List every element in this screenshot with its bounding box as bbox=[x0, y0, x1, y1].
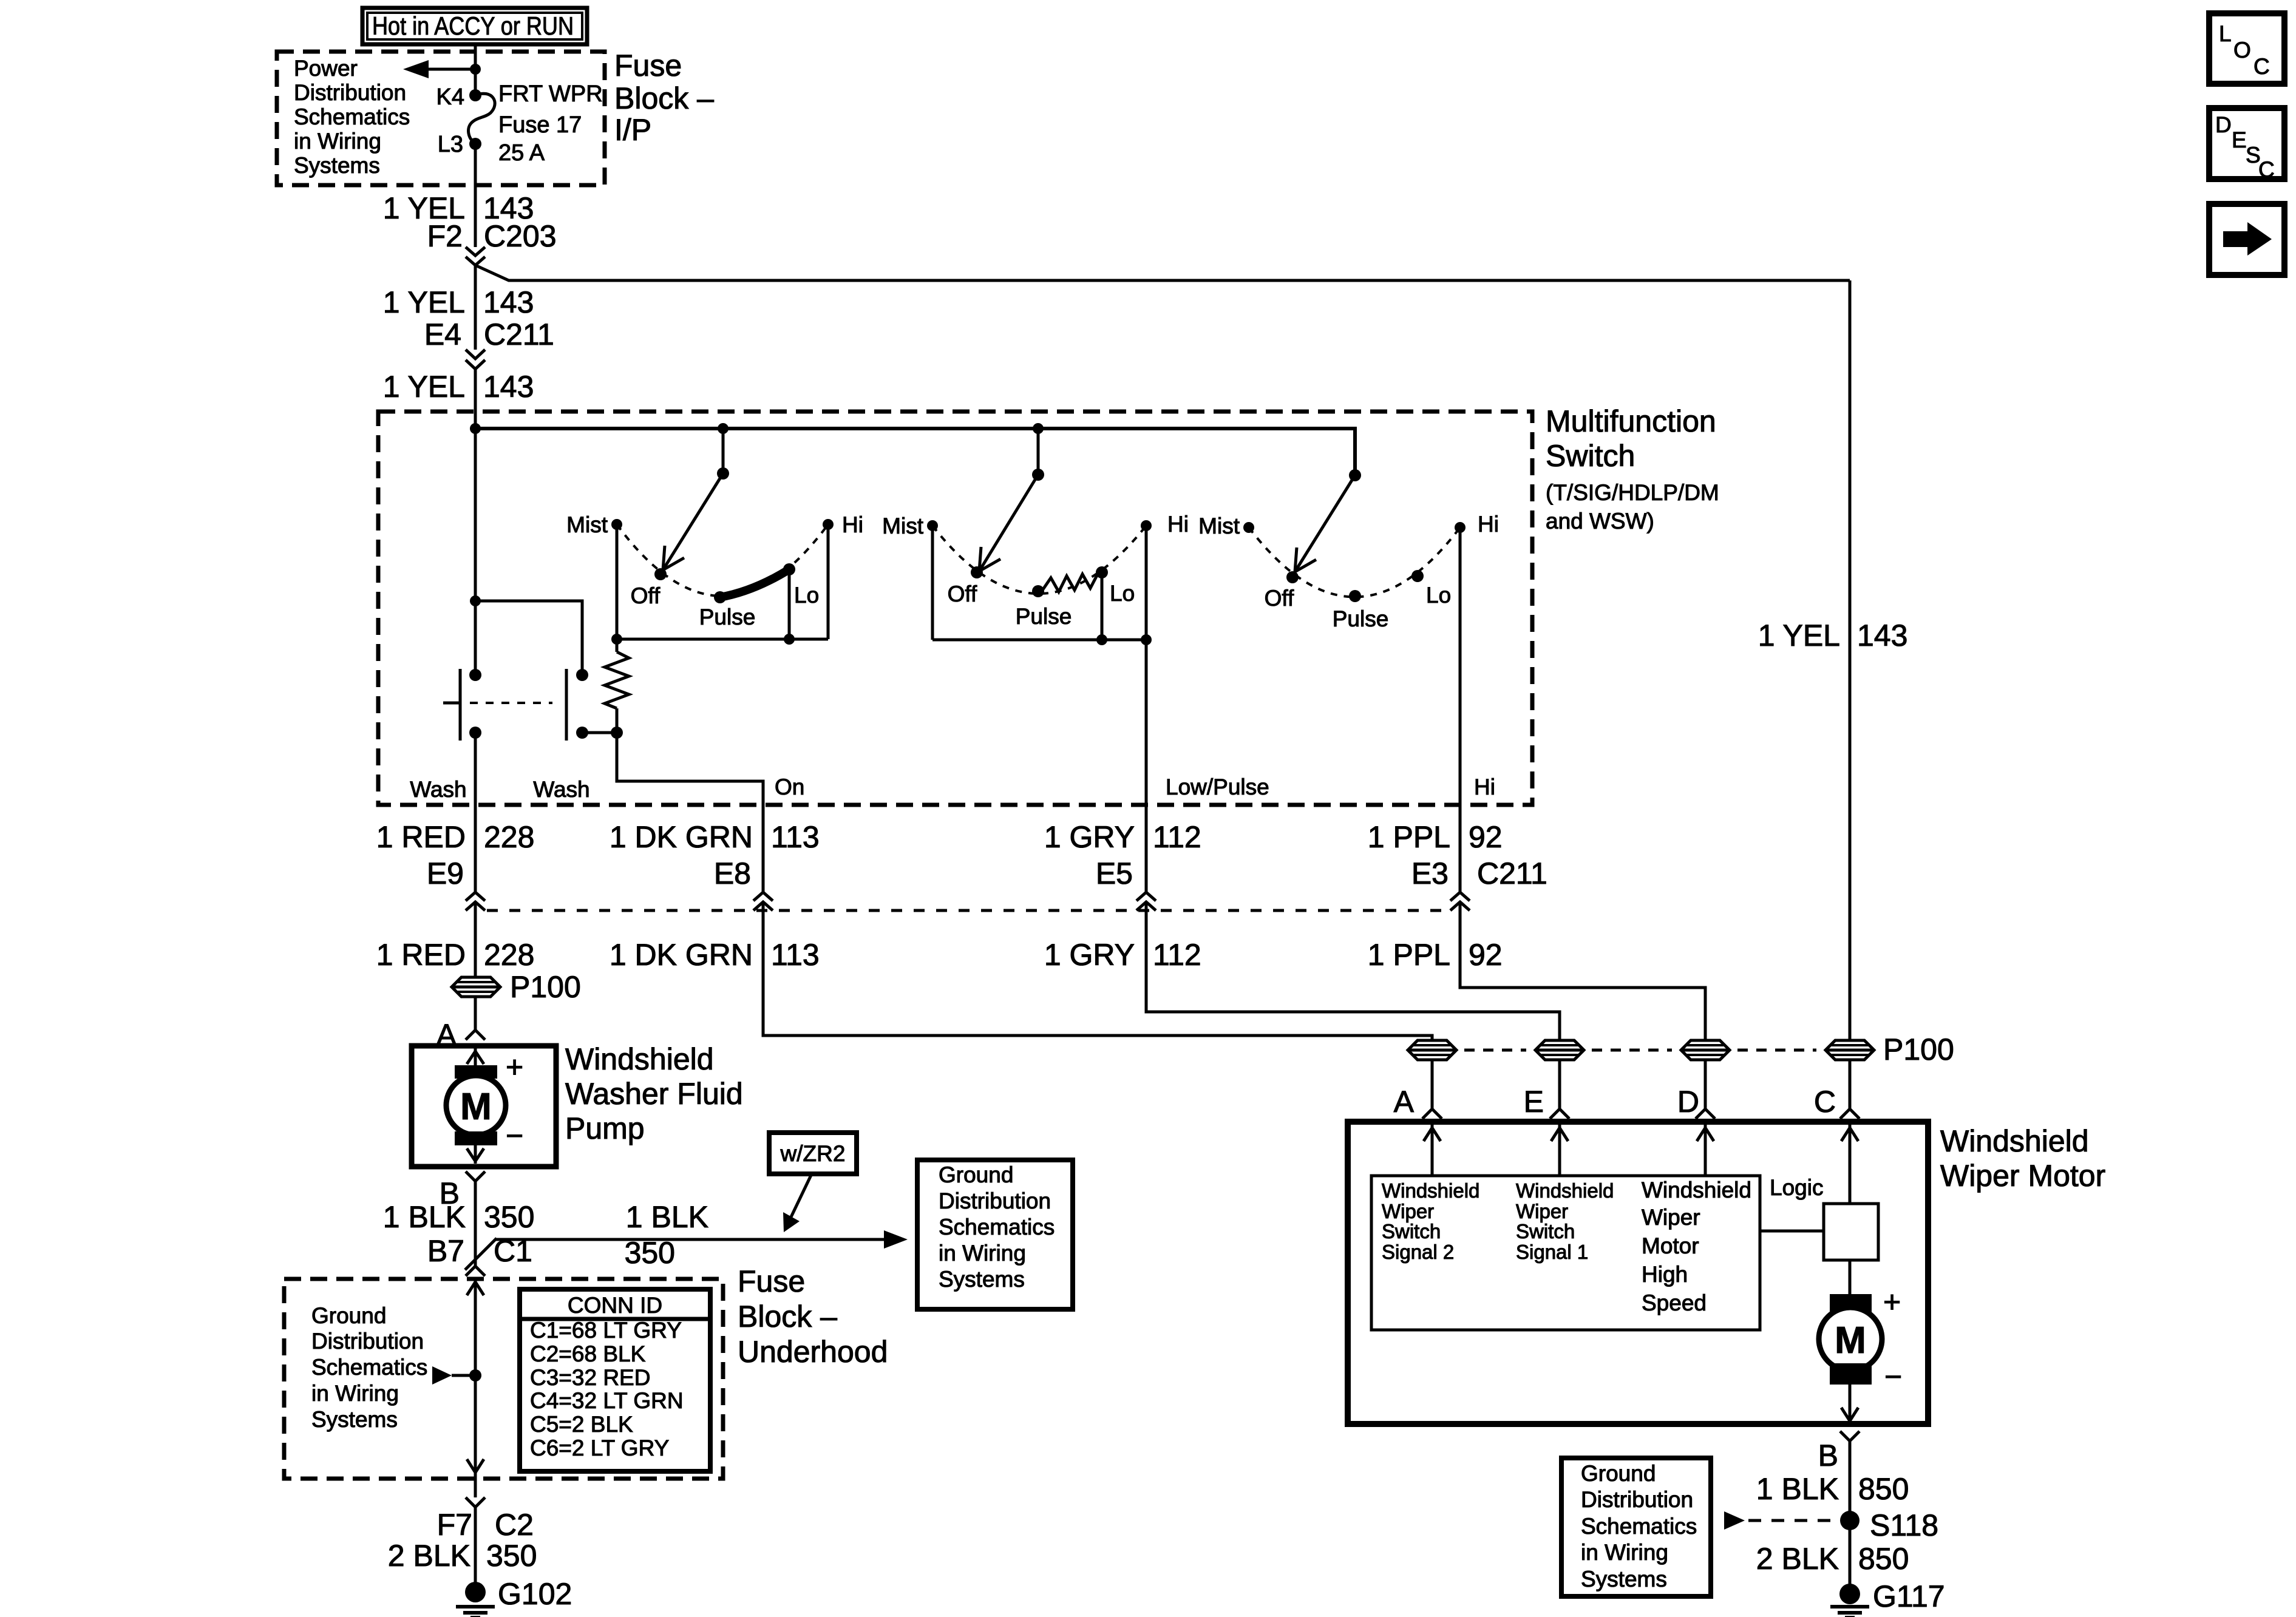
wire label 1 RED 228 (below C211) bbox=[376, 938, 535, 972]
note: Windshield Wiper Motor High Speed bbox=[1642, 1178, 1751, 1315]
svg-text:M: M bbox=[460, 1086, 492, 1128]
svg-text:1 YEL: 1 YEL bbox=[1758, 619, 1840, 653]
svg-text:Off: Off bbox=[631, 583, 661, 608]
svg-text:in Wiring: in Wiring bbox=[294, 129, 381, 154]
nav box DESC bbox=[2209, 108, 2284, 182]
wire C211 into multifunction switch bbox=[474, 369, 477, 675]
node: branch to power distribution (left arrow) bbox=[403, 60, 481, 78]
wire fuse to C203 bbox=[474, 144, 477, 247]
wire label 1 RED 228 bbox=[376, 820, 535, 854]
wire PPL to wiper motor D bbox=[1460, 902, 1705, 1039]
svg-text:K4: K4 bbox=[436, 84, 464, 110]
svg-text:G102: G102 bbox=[498, 1577, 572, 1611]
svg-text:Windshield: Windshield bbox=[1940, 1124, 2089, 1158]
svg-text:2 BLK: 2 BLK bbox=[1756, 1542, 1839, 1576]
fuse value label bbox=[498, 81, 603, 166]
wire D grommet to motor box bbox=[1704, 1060, 1707, 1109]
grommet P100 (wiper A) bbox=[1408, 1040, 1456, 1060]
svg-text:Systems: Systems bbox=[939, 1267, 1025, 1292]
pump motor M bbox=[446, 1048, 506, 1164]
svg-text:Wash: Wash bbox=[410, 777, 466, 802]
svg-text:D: D bbox=[2215, 112, 2232, 137]
svg-text:Schematics: Schematics bbox=[939, 1215, 1055, 1239]
svg-text:C4=32 LT GRN: C4=32 LT GRN bbox=[530, 1388, 684, 1413]
wire to G102 bbox=[474, 1507, 477, 1583]
wire C grommet to motor box bbox=[1849, 1060, 1852, 1109]
svg-text:Washer Fluid: Washer Fluid bbox=[565, 1077, 743, 1111]
svg-text:1 RED: 1 RED bbox=[376, 820, 466, 854]
svg-text:Mist: Mist bbox=[882, 514, 924, 538]
svg-text:Speed: Speed bbox=[1642, 1290, 1707, 1315]
svg-text:E8: E8 bbox=[714, 856, 751, 890]
wire from Hot box down to fuse bbox=[474, 44, 477, 95]
switch 1 closed contact thick arc (Pulse-Lo) bbox=[720, 569, 789, 597]
svg-text:Hi: Hi bbox=[1167, 512, 1189, 537]
arrow from w/ZR2 to wire bbox=[783, 1174, 812, 1232]
svg-text:1 YEL: 1 YEL bbox=[383, 285, 465, 319]
svg-text:143: 143 bbox=[1857, 619, 1907, 653]
svg-text:1 YEL: 1 YEL bbox=[383, 370, 465, 404]
svg-text:A: A bbox=[1394, 1085, 1415, 1119]
svg-text:E5: E5 bbox=[1096, 856, 1133, 890]
pin B7 entry chevron bbox=[466, 1266, 485, 1276]
svg-text:Systems: Systems bbox=[294, 153, 380, 178]
wire label 2 BLK 350 bbox=[388, 1539, 537, 1573]
svg-text:F7: F7 bbox=[437, 1508, 472, 1542]
switch 1 contacts Mist Off Hi bbox=[611, 519, 834, 603]
svg-text:Windshield: Windshield bbox=[1642, 1178, 1751, 1202]
title: Fuse Block - Underhood bbox=[738, 1264, 888, 1369]
svg-text:C: C bbox=[2254, 54, 2270, 79]
svg-text:C211: C211 bbox=[484, 317, 554, 351]
signal box bbox=[1371, 1176, 1760, 1330]
fuse block I/P dashed box bbox=[277, 52, 605, 185]
svg-text:Switch: Switch bbox=[1382, 1220, 1441, 1242]
wire Wash output bbox=[474, 733, 477, 892]
svg-text:E: E bbox=[2232, 127, 2247, 152]
node resistor / wash junction bbox=[582, 727, 623, 739]
svg-text:C2: C2 bbox=[495, 1508, 534, 1542]
svg-text:D: D bbox=[1677, 1085, 1699, 1119]
CONN ID table bbox=[520, 1289, 710, 1471]
svg-text:C6=2 LT GRY: C6=2 LT GRY bbox=[530, 1436, 669, 1460]
svg-text:M: M bbox=[1835, 1320, 1866, 1361]
svg-text:92: 92 bbox=[1469, 938, 1503, 972]
svg-text:2 BLK: 2 BLK bbox=[388, 1539, 470, 1573]
svg-text:C3=32 RED: C3=32 RED bbox=[530, 1365, 650, 1390]
switch 1 position arc bbox=[617, 524, 828, 596]
svg-text:Ground: Ground bbox=[311, 1303, 386, 1328]
svg-text:Distribution: Distribution bbox=[1581, 1487, 1693, 1512]
power label box "Hot in ACCY or RUN" bbox=[362, 8, 587, 44]
wire C entry arrow to logic bbox=[1841, 1125, 1858, 1204]
svg-text:and WSW): and WSW) bbox=[1546, 509, 1654, 534]
svg-text:1 PPL: 1 PPL bbox=[1368, 820, 1450, 854]
svg-text:I/P: I/P bbox=[614, 113, 651, 147]
svg-text:228: 228 bbox=[484, 938, 534, 972]
svg-text:850: 850 bbox=[1858, 1472, 1909, 1506]
connector C203 pin F2 bbox=[427, 219, 557, 265]
svg-text:Lo: Lo bbox=[794, 583, 819, 608]
svg-text:in Wiring: in Wiring bbox=[1581, 1540, 1668, 1565]
svg-text:Systems: Systems bbox=[1581, 1567, 1667, 1592]
svg-text:C: C bbox=[1814, 1085, 1836, 1119]
note: Power Distribution Schematics in Wiring Systems bbox=[294, 56, 410, 178]
pin B connector chevron (pump) bbox=[466, 1171, 485, 1181]
connector C211 pin E3 bbox=[1411, 856, 1547, 910]
pin C chevron bbox=[1840, 1109, 1860, 1119]
svg-text:P100: P100 bbox=[510, 970, 581, 1004]
svg-text:1 DK GRN: 1 DK GRN bbox=[610, 938, 753, 972]
svg-text:Distribution: Distribution bbox=[294, 80, 406, 105]
svg-text:L3: L3 bbox=[438, 132, 463, 157]
svg-text:High: High bbox=[1642, 1262, 1688, 1287]
svg-text:Underhood: Underhood bbox=[738, 1335, 888, 1369]
pin A connector chevron bbox=[466, 1030, 485, 1040]
svg-text:Schematics: Schematics bbox=[1581, 1514, 1697, 1539]
grommet P100 (wiper D) bbox=[1681, 1040, 1730, 1060]
svg-text:C5=2 BLK: C5=2 BLK bbox=[530, 1412, 633, 1437]
arrow to ground note bbox=[432, 1366, 481, 1385]
wire C203 to C211 bbox=[474, 265, 477, 350]
svg-text:C2=68 BLK: C2=68 BLK bbox=[530, 1341, 646, 1366]
wire motor to box bottom bbox=[1841, 1385, 1858, 1421]
svg-text:112: 112 bbox=[1153, 820, 1201, 854]
svg-text:1 RED: 1 RED bbox=[376, 938, 466, 972]
svg-text:O: O bbox=[2233, 38, 2251, 63]
svg-text:Fuse: Fuse bbox=[614, 49, 682, 83]
svg-text:Wiper: Wiper bbox=[1642, 1205, 1700, 1230]
svg-text:1 DK GRN: 1 DK GRN bbox=[610, 820, 753, 854]
switch 1 contact wires bbox=[617, 524, 828, 639]
svg-text:850: 850 bbox=[1858, 1542, 1909, 1576]
grommet dashed links bbox=[1464, 1049, 1816, 1052]
wire right vertical 1 YEL 143 down to P100 bbox=[1849, 280, 1852, 1040]
wiper motor M bbox=[1819, 1294, 1882, 1385]
svg-text:S118: S118 bbox=[1870, 1508, 1938, 1542]
ground G102 bbox=[456, 1582, 495, 1617]
title: Windshield Washer Fluid Pump bbox=[565, 1042, 743, 1145]
wire label 1 BLK 350 bbox=[383, 1200, 535, 1234]
nav box LOC bbox=[2209, 13, 2284, 84]
pin E chevron bbox=[1550, 1109, 1569, 1119]
switch 3 position arc bbox=[1249, 527, 1460, 597]
note box: Ground Distribution Schematics (mid) bbox=[917, 1160, 1073, 1309]
svg-text:w/ZR2: w/ZR2 bbox=[780, 1141, 846, 1166]
wire E entry arrow bbox=[1551, 1125, 1568, 1176]
wire label 1 BLK 850 bbox=[1756, 1472, 1909, 1506]
svg-text:Wiper: Wiper bbox=[1516, 1200, 1568, 1222]
svg-text:Fuse 17: Fuse 17 bbox=[498, 112, 582, 138]
washer pump box bbox=[412, 1046, 556, 1167]
wire label 1 GRY 112 bbox=[1044, 820, 1201, 854]
svg-text:350: 350 bbox=[484, 1200, 534, 1234]
pin A chevron (wiper motor) bbox=[1422, 1109, 1442, 1119]
option box w/ZR2 bbox=[769, 1133, 857, 1174]
svg-text:Mist: Mist bbox=[1198, 514, 1240, 538]
svg-text:C203: C203 bbox=[484, 219, 557, 253]
svg-text:Ground: Ground bbox=[939, 1162, 1013, 1187]
svg-text:Motor: Motor bbox=[1642, 1233, 1699, 1258]
svg-text:Hi: Hi bbox=[1478, 512, 1499, 537]
title: Windshield Wiper Motor bbox=[1940, 1124, 2105, 1193]
wire label 1 GRY 112 (below C211) bbox=[1044, 938, 1201, 972]
svg-text:Off: Off bbox=[948, 581, 977, 606]
svg-text:228: 228 bbox=[484, 820, 534, 854]
svg-text:350: 350 bbox=[625, 1236, 675, 1270]
multifunction switch dashed box bbox=[378, 412, 1532, 805]
svg-text:Switch: Switch bbox=[1516, 1220, 1575, 1242]
svg-text:On: On bbox=[775, 775, 804, 799]
wire label 1 YEL 143 (second) bbox=[383, 285, 534, 319]
svg-text:Wash: Wash bbox=[533, 777, 589, 802]
svg-text:E: E bbox=[1524, 1085, 1544, 1119]
svg-text:B7: B7 bbox=[427, 1234, 464, 1268]
svg-text:350: 350 bbox=[486, 1539, 537, 1573]
svg-text:E3: E3 bbox=[1411, 856, 1449, 890]
svg-text:−: − bbox=[1884, 1360, 1902, 1394]
svg-text:−: − bbox=[506, 1119, 523, 1153]
svg-text:C1=68 LT GRY: C1=68 LT GRY bbox=[530, 1318, 682, 1343]
svg-text:L: L bbox=[2219, 21, 2232, 46]
svg-text:(T/SIG/HDLP/DM: (T/SIG/HDLP/DM bbox=[1546, 480, 1719, 505]
wash switch branch from main wire bbox=[470, 595, 582, 675]
connector C211 pin E5 bbox=[1096, 856, 1156, 910]
svg-text:113: 113 bbox=[771, 938, 820, 972]
resistor pulse-delay (sw2) bbox=[1043, 573, 1102, 592]
svg-text:E4: E4 bbox=[424, 317, 461, 351]
svg-text:in Wiring: in Wiring bbox=[311, 1381, 399, 1406]
switch 2 wiper arm pivot bbox=[979, 423, 1044, 571]
connector C211 pin E4 bbox=[424, 317, 554, 369]
node bus/main junction bbox=[470, 423, 481, 434]
wire DK GRN to wiper motor A bbox=[763, 902, 1432, 1039]
svg-text:Power: Power bbox=[294, 56, 358, 81]
wire GRY to wiper motor E bbox=[1146, 902, 1560, 1039]
wire logic to motor bbox=[1849, 1260, 1852, 1295]
svg-text:1 GRY: 1 GRY bbox=[1044, 820, 1135, 854]
svg-text:Multifunction: Multifunction bbox=[1546, 404, 1716, 438]
switch 3 Hi output wire bbox=[1459, 527, 1462, 892]
svg-text:E9: E9 bbox=[427, 856, 464, 890]
svg-text:1 BLK: 1 BLK bbox=[1756, 1472, 1839, 1506]
svg-text:143: 143 bbox=[483, 370, 534, 404]
wire RED to P100 bbox=[474, 902, 477, 978]
fuse block underhood dashed box bbox=[284, 1279, 723, 1479]
note: Windshield Wiper Switch Signal 1 bbox=[1516, 1179, 1614, 1263]
svg-text:Wiper: Wiper bbox=[1382, 1200, 1434, 1222]
switch 2 contact wires bbox=[932, 526, 1146, 640]
svg-text:Signal 1: Signal 1 bbox=[1516, 1241, 1588, 1263]
svg-text:Distribution: Distribution bbox=[311, 1329, 424, 1354]
wire label 1 PPL 92 (below C211) bbox=[1368, 938, 1503, 972]
connector C1 pin B7 with splice slash bbox=[427, 1234, 532, 1270]
connector C2 pin F7 chevron bbox=[437, 1497, 534, 1542]
title: Multifunction Switch bbox=[1546, 404, 1719, 534]
wire branch 1 BLK 350 to ground distribution bbox=[495, 1238, 888, 1241]
svg-text:113: 113 bbox=[771, 820, 820, 854]
wire D entry arrow bbox=[1697, 1125, 1714, 1176]
svg-text:Schematics: Schematics bbox=[294, 104, 410, 129]
svg-text:F2: F2 bbox=[427, 219, 463, 253]
svg-text:Systems: Systems bbox=[311, 1407, 398, 1432]
wire label 1 YEL 143 (third) bbox=[383, 370, 534, 404]
svg-text:1 GRY: 1 GRY bbox=[1044, 938, 1135, 972]
switch 3 contacts bbox=[1243, 522, 1466, 602]
svg-text:1 PPL: 1 PPL bbox=[1368, 938, 1450, 972]
switch 1 wiper arm pivot bbox=[663, 423, 729, 570]
wire through underhood block bbox=[467, 1279, 484, 1497]
svg-text:112: 112 bbox=[1153, 938, 1201, 972]
svg-text:Distribution: Distribution bbox=[939, 1188, 1051, 1213]
grommet P100 (washer pump) bbox=[452, 977, 500, 997]
wire label 1 YEL 143 bbox=[383, 191, 534, 225]
wash switch contacts bbox=[443, 669, 588, 741]
fuse FRT WPR Fuse 17 25A between K4 and L3 bbox=[469, 89, 495, 150]
svg-text:Hot in ACCY or RUN: Hot in ACCY or RUN bbox=[372, 12, 574, 40]
switch 3 wiper arm pivot bbox=[1295, 469, 1361, 572]
svg-text:Signal 2: Signal 2 bbox=[1382, 1241, 1454, 1263]
wire signal box to logic bbox=[1760, 1230, 1824, 1233]
splice S118 bbox=[1840, 1511, 1860, 1530]
resistor wash/low feed (sw1 output) bbox=[605, 639, 629, 733]
svg-text:Low/Pulse: Low/Pulse bbox=[1166, 775, 1269, 799]
svg-text:92: 92 bbox=[1469, 820, 1503, 854]
svg-text:Pump: Pump bbox=[565, 1111, 645, 1145]
connector C211 pin E8 bbox=[714, 856, 773, 910]
svg-text:Pulse: Pulse bbox=[1333, 606, 1389, 631]
svg-text:1 BLK: 1 BLK bbox=[383, 1200, 466, 1234]
svg-text:CONN ID: CONN ID bbox=[568, 1293, 662, 1318]
svg-text:B: B bbox=[1818, 1439, 1838, 1473]
wire label 1 PPL 92 bbox=[1368, 820, 1503, 854]
svg-text:Block –: Block – bbox=[738, 1300, 837, 1334]
svg-text:P100: P100 bbox=[1883, 1032, 1954, 1066]
svg-text:Windshield: Windshield bbox=[565, 1042, 714, 1076]
svg-text:Lo: Lo bbox=[1110, 581, 1135, 606]
svg-text:FRT WPR: FRT WPR bbox=[498, 81, 603, 107]
svg-text:Wiper Motor: Wiper Motor bbox=[1940, 1159, 2105, 1193]
wire On output bbox=[617, 733, 763, 892]
svg-text:Fuse: Fuse bbox=[738, 1264, 805, 1298]
windshield wiper motor box bbox=[1348, 1122, 1928, 1424]
wire internal feed bus bbox=[475, 429, 1355, 475]
svg-text:Schematics: Schematics bbox=[311, 1355, 427, 1380]
dashed link to ground note with arrow bbox=[1724, 1511, 1838, 1530]
wire Low/Pulse output bbox=[1145, 640, 1148, 892]
svg-text:Ground: Ground bbox=[1581, 1461, 1656, 1486]
svg-text:in Wiring: in Wiring bbox=[939, 1241, 1026, 1266]
svg-text:25 A: 25 A bbox=[498, 140, 545, 166]
svg-text:Pulse: Pulse bbox=[699, 605, 756, 629]
pin B chevron (wiper motor) bbox=[1840, 1431, 1860, 1441]
svg-text:+: + bbox=[1883, 1285, 1901, 1319]
wire A grommet to motor box bbox=[1431, 1060, 1434, 1109]
wire B to S118 bbox=[1849, 1441, 1852, 1584]
ground G117 bbox=[1830, 1584, 1869, 1617]
logic block U1 bbox=[1824, 1204, 1878, 1260]
svg-text:Pulse: Pulse bbox=[1016, 604, 1072, 629]
svg-text:G117: G117 bbox=[1873, 1579, 1945, 1613]
wire pump B down bbox=[474, 1181, 477, 1266]
wire label 2 BLK 850 bbox=[1756, 1542, 1909, 1576]
svg-text:Switch: Switch bbox=[1546, 439, 1635, 473]
svg-text:C211: C211 bbox=[1477, 856, 1547, 890]
svg-text:Off: Off bbox=[1265, 586, 1294, 611]
svg-text:Lo: Lo bbox=[1426, 583, 1451, 608]
svg-text:Logic: Logic bbox=[1770, 1175, 1823, 1200]
svg-text:Windshield: Windshield bbox=[1382, 1179, 1479, 1202]
svg-text:143: 143 bbox=[483, 285, 534, 319]
wire E grommet to motor box bbox=[1558, 1060, 1561, 1109]
pin D chevron bbox=[1696, 1109, 1715, 1119]
wire label 1 YEL 143 (right run) bbox=[1758, 619, 1908, 653]
nav box arrow bbox=[2209, 204, 2284, 275]
grommet P100 (wiper E) bbox=[1535, 1040, 1584, 1060]
wire label 1 DK GRN 113 (below C211) bbox=[610, 938, 820, 972]
wire P100 to pump pin A bbox=[474, 997, 477, 1030]
svg-text:1 BLK: 1 BLK bbox=[626, 1200, 708, 1234]
note: Ground Distribution Schematics (underhood) bbox=[311, 1303, 427, 1432]
svg-text:Block –: Block – bbox=[614, 81, 714, 115]
wire A entry arrow bbox=[1424, 1125, 1441, 1176]
switch 2 position arc bbox=[932, 526, 1146, 594]
svg-text:+: + bbox=[506, 1050, 523, 1084]
svg-text:Hi: Hi bbox=[1474, 775, 1495, 799]
switch 2 contacts bbox=[927, 520, 1152, 597]
wire branch diagonal to right vertical bbox=[475, 265, 1850, 280]
svg-text:C: C bbox=[2258, 157, 2275, 182]
svg-text:Hi: Hi bbox=[842, 512, 863, 537]
connector C211 pin E9 bbox=[427, 856, 485, 910]
svg-text:Mist: Mist bbox=[566, 512, 608, 537]
svg-text:Windshield: Windshield bbox=[1516, 1179, 1614, 1202]
note box: Ground Distribution Schematics (right) bbox=[1561, 1458, 1711, 1596]
grommet P100 (wiper C) bbox=[1826, 1040, 1874, 1060]
note: Windshield Wiper Switch Signal 2 bbox=[1382, 1179, 1479, 1263]
wire label 1 DK GRN 113 bbox=[610, 820, 820, 854]
connector C211 in-line dashed bbox=[487, 909, 1449, 912]
title: Fuse Block - I/P bbox=[614, 49, 714, 147]
